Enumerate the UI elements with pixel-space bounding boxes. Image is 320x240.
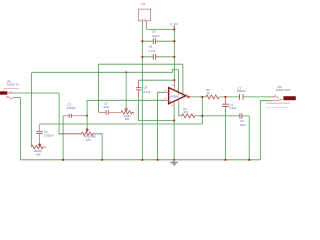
svg-text:10K: 10K <box>125 117 130 121</box>
svg-text:V_CC: V_CC <box>170 22 179 26</box>
junction dot R1 output line <box>201 115 203 117</box>
op-amp pin 4 stub <box>173 101 175 106</box>
svg-text:10K: 10K <box>86 138 91 142</box>
svg-text:0.1uF: 0.1uF <box>144 90 151 94</box>
wire1 corner down to op-amp pin <box>182 64 184 94</box>
svg-text:P1: P1 <box>142 2 146 6</box>
jack JP2 sleeve line <box>266 102 290 104</box>
junction dot bus C4 <box>224 159 226 161</box>
capacitor C4 <box>222 97 237 160</box>
junction dot BASS wiper <box>39 144 41 146</box>
svg-text:0.1uF: 0.1uF <box>229 106 236 110</box>
connector P1 pin 2 stub <box>145 21 147 24</box>
svg-text:4: 4 <box>172 103 174 107</box>
svg-text:C2: C2 <box>67 103 71 107</box>
wire C3 feed vertical <box>97 64 99 112</box>
junction dot output pin5 <box>188 96 190 98</box>
wire P1 pin2 to V_CC corner <box>146 24 174 29</box>
svg-text:1000uF: 1000uF <box>237 89 246 93</box>
capacitor C9 <box>202 113 249 160</box>
junction dot bus pin2 <box>157 159 159 161</box>
svg-text:C6: C6 <box>152 29 156 33</box>
junction dot C5 left <box>141 56 143 58</box>
op-amp pin 5 output stub <box>186 96 189 98</box>
jack JP2 inner line <box>266 106 289 108</box>
junction dot feedback tap <box>201 96 203 98</box>
wire jack JP2 ground <box>260 101 272 160</box>
wire1 gain-top horizontal <box>98 63 182 65</box>
svg-text:GAIN: GAIN <box>123 114 130 118</box>
svg-text:AUDIO OUT: AUDIO OUT <box>276 88 291 92</box>
svg-text:+: + <box>169 99 171 103</box>
capacitor C2 <box>63 103 87 118</box>
junction dot R4-C4 <box>224 96 226 98</box>
jack JP1 switch contact <box>6 97 13 99</box>
junction dot C6 right <box>173 40 175 42</box>
junction dot VOLUME wiper <box>86 128 88 130</box>
svg-text:C1: C1 <box>44 130 48 134</box>
wire C8 bottom to wireB corner <box>139 97 175 120</box>
wire pin4 to ground bus <box>173 106 175 160</box>
potentiometer BASS wiper arrow <box>38 143 41 147</box>
svg-text:6: 6 <box>172 83 174 87</box>
wire bass left vertical <box>31 73 33 147</box>
junction dot rail pin6 <box>173 79 175 81</box>
svg-text:VOLUME: VOLUME <box>84 135 96 139</box>
svg-text:0.1uF: 0.1uF <box>149 49 156 53</box>
junction dot bus C9 <box>248 159 250 161</box>
wire VOLUME right to ground <box>94 134 102 160</box>
svg-text:+V -V: +V -V <box>141 19 147 21</box>
svg-text:C9: C9 <box>240 119 244 123</box>
svg-text:-: - <box>169 91 170 95</box>
capacitor C6 <box>142 29 174 44</box>
svg-text:R4: R4 <box>206 88 210 92</box>
capacitor C7 <box>237 86 246 99</box>
junction dot C6 left <box>141 40 143 42</box>
capacitor C8 <box>136 80 151 97</box>
svg-text:0.033uF: 0.033uF <box>44 134 54 138</box>
wire bass boost long wireA <box>40 97 203 124</box>
svg-text:C8: C8 <box>144 86 148 90</box>
jack JP1 body <box>0 91 7 94</box>
connector P1 pin 1 stub <box>141 21 143 24</box>
svg-text:10K: 10K <box>36 152 41 156</box>
potentiometer VOLUME wiper arrow <box>86 128 89 132</box>
wire2 corner down to op-amp pin <box>177 69 179 92</box>
wire pin3 from volume wiper <box>87 99 165 101</box>
op-amp pin 1 stub red <box>182 94 184 96</box>
svg-text:10K: 10K <box>183 110 188 114</box>
capacitor C3 <box>98 102 121 115</box>
wire pin2 corner <box>158 92 166 160</box>
svg-text:AUDIO IN: AUDIO IN <box>7 82 19 86</box>
capacitor C1 <box>36 124 54 144</box>
jack JP2 switch contact <box>278 99 280 100</box>
junction dot pin4 wireB <box>173 120 175 122</box>
op-amp pin 6 stub <box>173 80 175 90</box>
capacitor C5 <box>142 45 174 60</box>
op-amp pin 3 stub <box>165 99 168 101</box>
svg-text:10uF: 10uF <box>103 105 109 109</box>
jack JP2 sleeve contact <box>273 100 282 101</box>
svg-text:4700pF: 4700pF <box>67 106 76 110</box>
wire C2 left to ground <box>62 116 64 160</box>
jack JP1 frame line <box>4 88 20 90</box>
svg-text:C3: C3 <box>104 102 108 106</box>
capacitor C8 top corner wire to rail <box>139 79 175 81</box>
svg-text:10uF: 10uF <box>240 123 246 127</box>
wire gain/bass long wire2 <box>32 70 179 73</box>
jack JP2 body <box>283 96 295 100</box>
wire volume wiper vertical <box>86 100 88 129</box>
potentiometer GAIN wiper <box>125 72 127 109</box>
jack JP1 tip contact <box>7 92 12 94</box>
op-amp pin 8 stub red <box>177 92 179 94</box>
junction dot GAIN wiper on wire2 <box>125 71 127 73</box>
svg-text:LM386: LM386 <box>170 95 179 99</box>
wire V_CC rail <box>173 29 175 80</box>
connector P1 box <box>139 9 151 21</box>
wire audio-in tip to volume drop <box>12 92 59 94</box>
potentiometer VOLUME zigzag <box>59 132 95 135</box>
resistor R1 <box>179 104 203 118</box>
potentiometer BASS zigzag <box>32 145 46 148</box>
resistor R4 <box>206 88 219 99</box>
junction dot bus pin4 <box>173 159 175 161</box>
potentiometer GAIN zigzag <box>121 111 134 114</box>
junction dot bus left rail <box>141 159 143 161</box>
V_CC supply symbol tick <box>173 26 175 30</box>
wire ground bus <box>20 159 260 161</box>
jack JP2 tip contact <box>272 95 279 97</box>
junction dot C5 right <box>173 56 175 58</box>
wire jack switch to ground drop <box>13 98 20 160</box>
junction dot V_CC corner <box>173 29 175 31</box>
svg-text:100uF: 100uF <box>152 34 160 38</box>
wire left rail from P1 pin1 <box>141 24 143 160</box>
junction dot bus VOLUME <box>101 159 103 161</box>
junction dot bus C2 <box>62 159 64 161</box>
wire output net <box>189 96 272 98</box>
wire volume feed vertical <box>58 93 60 135</box>
op-amp pin 1/8 bottom stub to R1 <box>178 99 180 104</box>
op-amp U1 LM386 triangle <box>169 88 186 104</box>
junction dot C2 right on volume wiper line <box>86 115 88 117</box>
svg-text:C5: C5 <box>149 45 153 49</box>
op-amp pin 2 stub <box>165 91 168 93</box>
ground symbol <box>170 160 178 166</box>
svg-text:10: 10 <box>207 91 210 95</box>
svg-text:BASS: BASS <box>34 149 42 153</box>
